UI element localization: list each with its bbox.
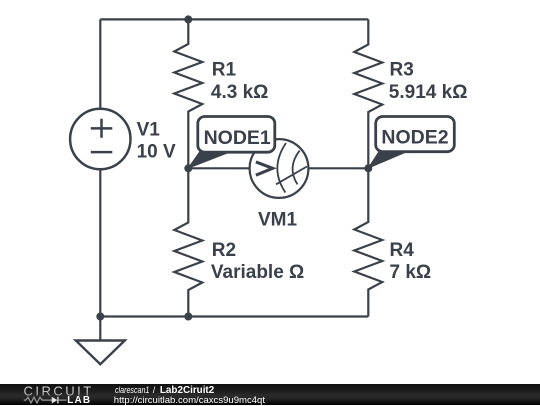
svg-text:R4: R4 — [390, 240, 415, 261]
svg-text:R3: R3 — [390, 60, 414, 81]
svg-text:LAB: LAB — [67, 395, 91, 405]
svg-text:NODE1: NODE1 — [204, 127, 271, 149]
svg-text:R1: R1 — [212, 60, 237, 81]
svg-text:7 kΩ: 7 kΩ — [390, 262, 432, 283]
svg-text:5.914 kΩ: 5.914 kΩ — [389, 82, 468, 103]
svg-text:NODE2: NODE2 — [381, 127, 448, 149]
svg-text:Variable Ω: Variable Ω — [211, 262, 304, 283]
svg-text:R2: R2 — [212, 240, 236, 261]
svg-text:V1: V1 — [137, 119, 161, 140]
svg-text:4.3 kΩ: 4.3 kΩ — [211, 82, 269, 103]
svg-text:VM1: VM1 — [258, 209, 298, 230]
svg-text:10 V: 10 V — [137, 142, 176, 163]
